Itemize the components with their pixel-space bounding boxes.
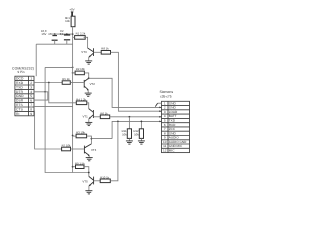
resistor R8 xyxy=(94,47,111,54)
resistor R4 xyxy=(76,97,87,104)
wire R2 to VT2 collector xyxy=(84,73,88,78)
resistor R11 xyxy=(122,117,132,141)
wire R6 to phone row4 xyxy=(110,116,162,118)
svg-text:VT3: VT3 xyxy=(81,50,87,54)
COM pin labels xyxy=(16,77,32,116)
wire phone row1 stub xyxy=(155,103,161,106)
svg-text:8: 8 xyxy=(30,107,32,111)
Siemens connector table xyxy=(162,101,190,152)
Siemens connector header xyxy=(159,90,173,98)
resistor R9 xyxy=(72,161,86,168)
svg-text:12: 12 xyxy=(163,148,167,152)
transistor VT5 xyxy=(82,176,93,190)
transistor VT1 xyxy=(82,109,93,123)
svg-text:DSR: DSR xyxy=(16,99,24,103)
wire R3 to VT4 collector xyxy=(87,136,92,144)
svg-text:1: 1 xyxy=(30,77,32,81)
svg-text:16V: 16V xyxy=(41,32,46,36)
junction VT2 collector branch xyxy=(88,77,90,79)
svg-text:DTR: DTR xyxy=(16,90,24,94)
node rail junction xyxy=(72,33,74,35)
svg-text:5: 5 xyxy=(30,94,32,98)
wire +5V rail xyxy=(48,33,72,35)
capacitor C2 xyxy=(60,29,70,44)
svg-text:2: 2 xyxy=(30,81,32,85)
transistor VT3 xyxy=(81,48,93,61)
wire COM row2 to R5 xyxy=(34,82,62,84)
ground VT4 xyxy=(86,158,93,161)
wire down to COM table xyxy=(35,44,37,76)
svg-text:10k: 10k xyxy=(134,132,139,136)
resistor R2 xyxy=(72,67,86,75)
wire DTR vertical down xyxy=(45,67,89,172)
svg-text:c35-c75: c35-c75 xyxy=(160,94,172,98)
svg-text:RTS: RTS xyxy=(16,103,24,107)
svg-text:RI: RI xyxy=(16,112,20,116)
svg-text:DCD: DCD xyxy=(16,77,24,81)
resistor R6 xyxy=(94,111,110,118)
svg-text:VT2: VT2 xyxy=(90,82,96,86)
wire COM row7 to bus xyxy=(34,106,73,108)
resistor R3 xyxy=(72,130,87,137)
resistor R12 xyxy=(133,121,143,140)
svg-text:GND: GND xyxy=(16,94,24,98)
svg-text:3: 3 xyxy=(30,85,32,89)
resistor Br1 xyxy=(65,16,75,27)
COM connector header xyxy=(12,67,34,75)
svg-text:R2 10k: R2 10k xyxy=(76,67,85,71)
wire branch down to R4 xyxy=(49,83,77,103)
wire VT4 branch right xyxy=(91,138,112,140)
ground VT2 xyxy=(85,93,92,96)
wire R10 up to row5 net xyxy=(110,121,118,180)
ground R11 xyxy=(126,141,133,144)
Siemens pin labels xyxy=(163,101,187,152)
svg-text:+5V: +5V xyxy=(69,7,74,11)
svg-text:4: 4 xyxy=(30,90,32,94)
wire R4 to VT1 collector xyxy=(87,103,89,109)
ground R12 xyxy=(138,141,145,144)
node wire arrows into phone connector xyxy=(159,107,161,123)
wire VT2 collector to phone row2 xyxy=(89,78,162,107)
svg-text:7: 7 xyxy=(30,103,32,107)
svg-text:RXD: RXD xyxy=(16,81,24,85)
svg-text:TXD: TXD xyxy=(16,85,23,89)
resistor R1 xyxy=(73,32,86,39)
wire R7 to VT4 base xyxy=(71,148,85,150)
resistor R5 xyxy=(62,77,70,84)
wire Br1 to junction xyxy=(72,27,74,38)
wire R1 to VT3 collector xyxy=(84,37,88,48)
svg-text:10k: 10k xyxy=(65,19,70,23)
wire DTR top branch to bus xyxy=(45,66,73,68)
wire R5 to VT2 base xyxy=(70,82,84,84)
COM connector table xyxy=(15,76,34,116)
svg-text:VT4: VT4 xyxy=(91,148,97,152)
ground VT1 xyxy=(85,122,92,125)
svg-text:0,1: 0,1 xyxy=(60,32,64,36)
resistor R7 xyxy=(62,143,71,150)
capacitor C1 xyxy=(41,29,58,44)
svg-text:CTS: CTS xyxy=(16,107,24,111)
wire R8 to phone row3 xyxy=(111,52,162,111)
svg-text:MIC: MIC xyxy=(169,148,175,152)
wire R9 to VT5 collector xyxy=(84,167,89,177)
svg-text:9: 9 xyxy=(30,112,32,116)
node +5V xyxy=(69,7,74,16)
wire net VT4-collector / R10 / phone row5 xyxy=(112,121,161,138)
wire cap ground bus xyxy=(36,43,72,45)
svg-text:VT1: VT1 xyxy=(82,114,88,118)
wire COM row8 down to R7 xyxy=(34,111,62,149)
transistor VT2 xyxy=(84,78,95,93)
svg-text:10k: 10k xyxy=(122,132,127,136)
wire COM row4 loop to row6 xyxy=(34,92,48,100)
bus +5V vertical xyxy=(72,37,74,172)
svg-text:VT5: VT5 xyxy=(82,179,88,183)
ground VT3 xyxy=(85,61,92,64)
svg-text:6: 6 xyxy=(30,99,32,103)
ground VT5 xyxy=(85,191,92,194)
resistor R10 xyxy=(94,176,110,183)
svg-text:9 Pin: 9 Pin xyxy=(17,70,24,74)
transistor VT4 xyxy=(84,144,96,158)
